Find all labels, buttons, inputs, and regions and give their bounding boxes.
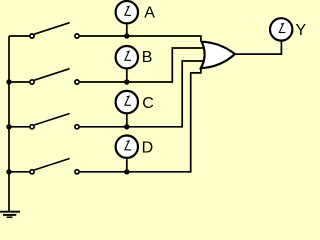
node: junction row A xyxy=(124,33,129,38)
wire: lamp B stem xyxy=(126,68,128,82)
node: bus junction D xyxy=(6,169,11,174)
wire: row A bus to switch xyxy=(9,35,30,37)
wire: row B bus to switch xyxy=(9,81,30,83)
node: junction row D xyxy=(124,169,129,174)
or-gate U1 xyxy=(201,42,235,68)
switch SW-D xyxy=(30,159,79,174)
wire: row C bus to switch xyxy=(9,126,30,128)
lamp Y xyxy=(270,18,292,40)
node: junction row C xyxy=(124,124,129,129)
switch SW-C xyxy=(30,114,79,129)
wire: row A switch to OR gate input 1 xyxy=(80,36,201,42)
switch SW-B xyxy=(30,69,79,84)
svg-text:Y: Y xyxy=(296,22,307,39)
lamp B xyxy=(116,46,138,68)
lamp A xyxy=(116,1,138,23)
lamp C xyxy=(116,91,138,113)
switch SW-A xyxy=(30,23,79,38)
wire: row C switch to OR gate input 3 xyxy=(80,61,204,127)
node: bus junction B xyxy=(6,79,11,84)
svg-text:C: C xyxy=(142,95,154,112)
svg-text:D: D xyxy=(142,140,154,157)
wire: row B switch to OR gate input 2 xyxy=(80,48,203,82)
wire: lamp D stem xyxy=(126,158,128,172)
node: bus junction C xyxy=(6,124,11,129)
svg-text:A: A xyxy=(144,4,155,21)
wire: lamp A stem xyxy=(126,23,128,36)
svg-text:B: B xyxy=(142,49,153,66)
wire: row D switch to OR gate input 4 xyxy=(80,68,201,172)
wire: row D bus to switch xyxy=(9,171,30,173)
wire: lamp C stem xyxy=(126,113,128,127)
lamp D xyxy=(116,136,138,158)
wire: OR gate output to lamp Y xyxy=(235,41,282,54)
ground xyxy=(0,212,20,218)
node: junction row B xyxy=(124,79,129,84)
wire: left bus vertical xyxy=(8,36,10,212)
